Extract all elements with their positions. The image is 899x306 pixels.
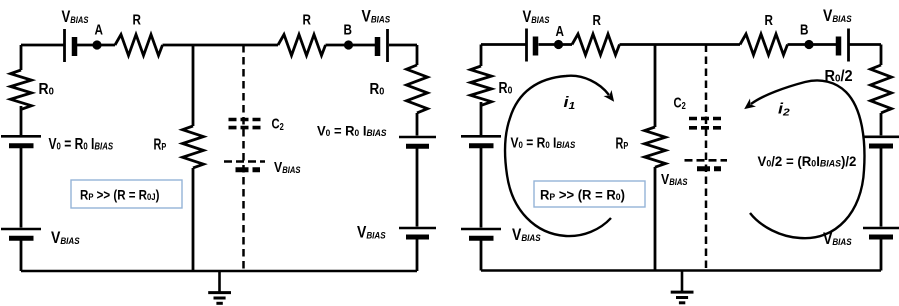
svg-text:i2: i2	[778, 100, 791, 118]
svg-text:A: A	[95, 21, 104, 38]
svg-text:V0 = R0 IBIAS: V0 = R0 IBIAS	[49, 134, 114, 152]
svg-text:VBIAS: VBIAS	[62, 7, 89, 26]
svg-text:V0/2 = (R0IBIAS)/2: V0/2 = (R0IBIAS)/2	[758, 154, 857, 169]
svg-text:i1: i1	[564, 93, 576, 111]
svg-text:RP: RP	[616, 135, 629, 152]
svg-text:VBIAS: VBIAS	[51, 229, 80, 247]
svg-text:R0/2: R0/2	[825, 68, 853, 86]
svg-text:V0 = R0 IBIAS: V0 = R0 IBIAS	[511, 134, 576, 150]
svg-text:B: B	[344, 21, 353, 38]
svg-text:VBIAS: VBIAS	[661, 171, 688, 187]
svg-text:R0: R0	[499, 79, 513, 97]
svg-text:R: R	[765, 12, 774, 29]
svg-text:VBIAS: VBIAS	[823, 230, 852, 248]
svg-text:VBIAS: VBIAS	[362, 7, 391, 25]
svg-text:R: R	[303, 11, 312, 28]
svg-text:VBIAS: VBIAS	[274, 159, 301, 175]
svg-text:VBIAS: VBIAS	[512, 226, 541, 244]
svg-text:VBIAS: VBIAS	[823, 7, 852, 25]
svg-text:R: R	[133, 11, 142, 28]
svg-text:A: A	[556, 23, 565, 40]
svg-text:R0: R0	[39, 81, 55, 98]
svg-text:C2: C2	[674, 94, 686, 111]
svg-text:R: R	[593, 12, 602, 29]
svg-text:VBIAS: VBIAS	[357, 223, 386, 241]
svg-text:C2: C2	[272, 115, 284, 132]
svg-text:RP: RP	[154, 136, 167, 153]
svg-text:VBIAS: VBIAS	[523, 8, 550, 27]
svg-text:B: B	[800, 21, 809, 38]
svg-text:R0: R0	[370, 81, 385, 98]
svg-text:V0 = R0 IBIAS: V0 = R0 IBIAS	[317, 123, 387, 139]
